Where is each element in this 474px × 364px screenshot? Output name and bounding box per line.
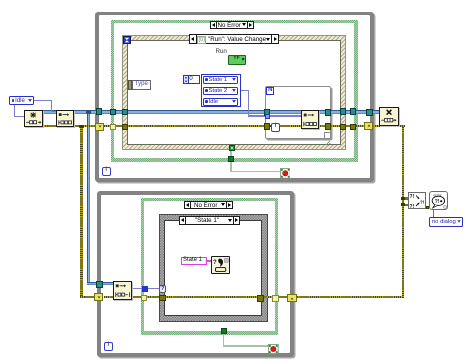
- wire: error stub to merge errors in2: [404, 204, 408, 206]
- tunnel: error, bottom case left (pale): [141, 295, 147, 301]
- tunnel: error, inner case right: [257, 295, 263, 301]
- node: Enqueue Element (init): [56, 110, 75, 127]
- tunnel: queue, event right: [340, 108, 346, 115]
- node: Release Queue: [379, 107, 399, 126]
- for loop count terminal N: [266, 87, 274, 95]
- wire: dequeued element to inner case selector: [132, 288, 162, 289]
- wire: enum constant Idle down-left: [14, 105, 15, 117]
- loop condition stop terminal (top): [280, 165, 291, 176]
- tunnel: queue, for loop right: [325, 109, 331, 115]
- tunnel: error, for loop left: [264, 123, 270, 129]
- tunnel: queue, top case left: [110, 109, 116, 116]
- case selector label "State 1" (inner): [179, 216, 241, 225]
- svg-text:?!: ?!: [409, 194, 414, 200]
- wire: error main horizontal (top): [43, 125, 405, 127]
- svg-text:?!: ?!: [435, 199, 440, 205]
- tunnel: error, top case left: [110, 124, 116, 130]
- while loop iteration terminal i (top): [102, 167, 111, 176]
- tunnel: queue, top loop left: [96, 108, 103, 115]
- tunnel: error, inner case left: [159, 295, 165, 301]
- wire: error vertical (right, release queue down to merge): [402, 127, 404, 299]
- case structure "No Error" (bottom): [141, 198, 278, 335]
- tunnel: boolean, top case bottom: [228, 156, 234, 162]
- selector terminal "?" on inner case: [159, 285, 166, 293]
- array index box: [183, 75, 199, 85]
- wire: SEH to no-dialog constant: [433, 210, 434, 217]
- tunnel: queue, bottom loop left: [96, 281, 103, 288]
- node: Dequeue Element: [113, 281, 132, 300]
- tunnel: boolean, event bottom: [229, 145, 235, 151]
- Run label: [216, 48, 227, 55]
- wire: merge errors to SEH connector: [426, 206, 429, 209]
- tunnel: enum into bottom case (solid blue): [142, 286, 148, 292]
- case structure "No Error" (top): [111, 20, 358, 162]
- wire: boolean between event tunnel and case tunnel (top): [230, 150, 231, 156]
- tunnel: queue, for loop left: [264, 109, 270, 115]
- inner case structure "State 1": [160, 215, 267, 321]
- event timeout terminal (hourglass): [123, 36, 131, 44]
- svg-text:?: ?: [213, 260, 217, 266]
- enum array element "Idle": [203, 98, 239, 106]
- enum array frame: [201, 74, 241, 107]
- enum array element "State 1": [203, 76, 239, 84]
- wire: boolean to loop condition (bottom): [223, 334, 224, 346]
- enum constant "no dialog": [429, 217, 463, 227]
- tunnel: error, event right: [340, 124, 346, 130]
- tunnel: error, for loop right: [325, 123, 331, 129]
- tunnel: enum, for loop left: [265, 114, 270, 119]
- node: One Button Dialog VI: [211, 256, 230, 274]
- tunnel: error, event left: [122, 124, 128, 130]
- event data node "Type": [128, 80, 132, 89]
- wire: string constant to dialog vi (pink): [206, 260, 212, 261]
- while loop iteration terminal i (bottom): [104, 342, 113, 351]
- case selector label "No Error" (top): [210, 21, 254, 30]
- node: Merge Errors: [408, 192, 427, 209]
- wire: boolean to loop condition (top): [230, 162, 231, 172]
- loop condition stop terminal (bottom): [268, 341, 279, 351]
- tunnel: error, bottom case right (pale): [272, 295, 278, 301]
- svg-text:?!: ?!: [420, 200, 425, 205]
- wire: error into bottom left shift register: [80, 296, 96, 298]
- node: Enqueue Element (in for loop): [301, 110, 320, 129]
- tunnel: queue, top loop right: [366, 109, 373, 116]
- wire: error bottom main horizontal: [104, 296, 405, 298]
- for loop N: [265, 86, 331, 140]
- while loop (top, producer): [95, 12, 374, 183]
- tunnel: boolean, bottom case bottom: [221, 328, 227, 335]
- wire: enum constant Idle right into enqueue: [34, 100, 53, 101]
- node: Simple Error Handler VI: [429, 191, 448, 210]
- wire: queue vertical branch down to consumer loop: [87, 112, 90, 283]
- shift register right (top loop): [364, 122, 373, 130]
- junction: error wire branch: [79, 125, 83, 129]
- shift register right (bottom loop): [287, 294, 297, 302]
- wire: queue (blue thick) main horizontal: [43, 110, 380, 114]
- event structure: [122, 35, 346, 150]
- shift register left (bottom loop): [94, 293, 104, 301]
- enum constant "Idle" (left): [9, 96, 34, 105]
- wire: error vertical (left branch down): [80, 127, 82, 299]
- wire: enum array to for-loop tunnel: [241, 90, 249, 91]
- tunnel: queue, top case right: [350, 108, 356, 115]
- event selector label [0] "Run": Value Change: [189, 34, 279, 44]
- node: Obtain Queue: [24, 110, 43, 128]
- shift register left (top loop): [95, 123, 104, 131]
- junction: queue wire branch: [86, 110, 91, 115]
- for loop resize handle: [324, 132, 330, 138]
- wire: queue horizontal into dequeue: [87, 282, 113, 286]
- tunnel: error, top case right: [350, 124, 356, 130]
- case selector label "No Error" (bottom): [184, 201, 233, 210]
- wire: error stub to merge errors in1: [404, 197, 408, 199]
- svg-text:?!: ?!: [409, 204, 414, 209]
- Run boolean terminal TF: [228, 55, 246, 64]
- while loop (bottom, consumer): [97, 191, 294, 357]
- string constant "State 1": [181, 257, 207, 266]
- for loop iteration terminal i: [271, 123, 279, 131]
- tunnel: queue, event left: [122, 109, 128, 116]
- enum array element "State 2": [203, 87, 239, 95]
